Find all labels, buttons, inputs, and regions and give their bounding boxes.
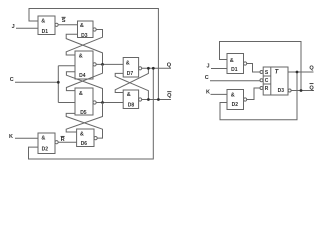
node Q-bar label [167, 92, 172, 100]
wire D5 output to D8 [96, 102, 123, 104]
wire Q-bar feedback to D1 (top rail) [29, 9, 158, 100]
wire right J to D1 [211, 68, 227, 70]
svg-text:D8: D8 [128, 102, 135, 108]
gate D3 [78, 21, 97, 39]
node right junction Q [296, 71, 299, 74]
svg-text:K: K [206, 89, 210, 95]
wire right K to D2 [211, 93, 228, 95]
node junction Q to bottom rail [152, 67, 155, 70]
gate D5 [75, 88, 96, 116]
gate right D2 [227, 90, 247, 110]
svg-text:R: R [265, 86, 269, 92]
svg-text:&: & [41, 135, 45, 141]
wire right C to C pin [210, 80, 260, 82]
svg-text:&: & [80, 131, 84, 137]
node R-bar label [61, 136, 65, 143]
wire D3 output cross to D4 input [66, 30, 102, 56]
node D5 output junction [101, 101, 104, 104]
wire S-bar from D1 to D3 [58, 24, 77, 26]
gate D4 [75, 51, 96, 79]
wire D4 output to D7 [96, 63, 123, 65]
svg-text:C: C [10, 77, 14, 83]
node right Q-bar label [309, 84, 314, 92]
svg-text:D7: D7 [127, 71, 134, 77]
node junction Q-bar cross [147, 98, 150, 101]
svg-text:T: T [275, 69, 280, 75]
svg-text:C: C [205, 75, 209, 81]
gate D7 [123, 58, 142, 78]
node S-bar label [62, 17, 66, 24]
wire right Q feedback to D2 (bottom rail) [220, 72, 297, 120]
wire Q-bar cross to D7 input [115, 73, 148, 99]
wire D6 output cross to D5 input [66, 113, 102, 138]
wire C input net [15, 66, 75, 103]
wire D5 output cross to D6 input [66, 103, 102, 133]
wire right Q-bar feedback to D1 (top rail) [220, 42, 302, 91]
svg-text:S: S [265, 70, 269, 76]
svg-text:&: & [79, 91, 83, 97]
svg-text:D1: D1 [42, 29, 49, 35]
node right junction Q-bar [300, 89, 303, 92]
wire J to D1 [16, 27, 38, 29]
wire D4 output cross to D5 input [66, 64, 102, 90]
wire D5 output cross to D4 input [66, 72, 102, 103]
gate D6 [77, 129, 98, 147]
svg-text:&: & [126, 60, 130, 66]
svg-text:Q: Q [167, 62, 172, 68]
wire Q output [142, 67, 171, 69]
node junction Q-bar to top rail [157, 98, 160, 101]
svg-text:&: & [230, 58, 234, 64]
wire Q-bar output [142, 99, 171, 101]
svg-text:D2: D2 [42, 147, 49, 153]
svg-text:&: & [127, 92, 131, 98]
wire Q feedback to D2 (bottom rail) [29, 68, 154, 159]
gate right D1 [227, 54, 247, 74]
gate D2 [38, 133, 58, 154]
svg-text:S: S [62, 18, 66, 24]
svg-text:C: C [265, 78, 269, 84]
svg-text:D5: D5 [80, 110, 87, 116]
svg-text:D4: D4 [79, 73, 86, 79]
svg-text:&: & [80, 23, 84, 29]
svg-text:D1: D1 [231, 67, 238, 73]
svg-text:&: & [79, 53, 83, 59]
svg-text:Q: Q [309, 85, 314, 91]
svg-text:D3: D3 [278, 88, 285, 94]
node junction Q cross [147, 67, 150, 70]
svg-text:K: K [9, 134, 13, 140]
node C junction [57, 81, 60, 84]
svg-text:&: & [231, 92, 235, 98]
wire K to D2 [15, 137, 38, 139]
svg-text:Q: Q [167, 93, 172, 99]
svg-text:J: J [12, 24, 15, 30]
svg-text:J: J [206, 63, 209, 69]
gate D1 [38, 16, 58, 35]
wire R-bar from D2 to D6 [58, 141, 76, 143]
node D4 output junction [101, 63, 104, 66]
flip-flop D3 (T trigger) [260, 67, 291, 95]
svg-text:&: & [41, 18, 45, 24]
wire right Q output [288, 71, 314, 73]
svg-text:D6: D6 [81, 141, 88, 147]
wire Q cross to D8 input [115, 68, 148, 92]
gate D8 [123, 90, 142, 109]
svg-text:D2: D2 [232, 102, 239, 108]
svg-text:D3: D3 [81, 33, 88, 39]
wire right D1 to S pin [247, 64, 260, 73]
svg-text:Q: Q [309, 66, 314, 72]
wire right D2 to R pin [247, 88, 260, 100]
wire D4 output cross to D3 input [66, 34, 102, 64]
wire right Q-bar output [291, 90, 314, 92]
